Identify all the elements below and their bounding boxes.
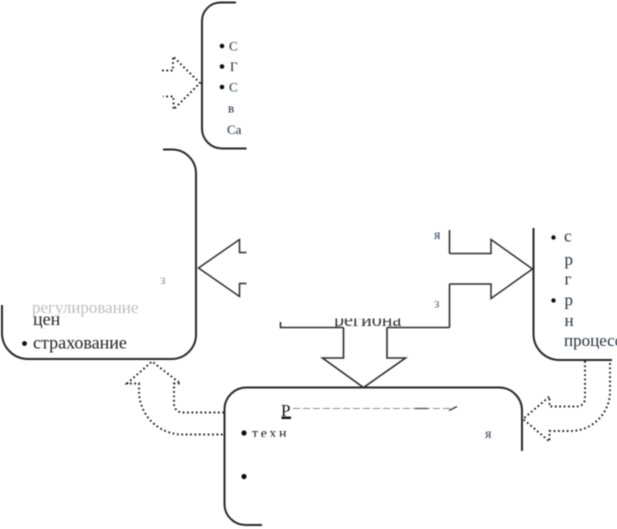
svg-text:С: С bbox=[229, 39, 238, 54]
svg-text:я: я bbox=[485, 427, 492, 442]
svg-text:С: С bbox=[229, 80, 238, 95]
svg-text:процесс: процесс bbox=[564, 331, 617, 350]
central box right edge lower remnant bbox=[449, 284, 451, 328]
box top (rounded rect, right side faded away) bbox=[202, 3, 247, 149]
central box bottom-right edge remnant bbox=[387, 327, 450, 329]
central box right edge upper remnant bbox=[449, 230, 451, 254]
bullet right box 1 bbox=[551, 235, 555, 239]
svg-text:Са: Са bbox=[227, 122, 242, 137]
text региона bbox=[334, 309, 401, 331]
dotted elbow block arrow from bottom box up into left box bbox=[127, 362, 224, 435]
box right (rounded rect, right side off-image) bbox=[534, 228, 613, 360]
faded underline of title bbox=[293, 408, 450, 410]
solid block arrow into left box bbox=[199, 240, 247, 297]
svg-text:з: з bbox=[160, 273, 166, 288]
text fragments top box bbox=[227, 39, 242, 138]
bullet top box 2 bbox=[220, 64, 225, 69]
dotted elbow block arrow from right box down into bottom box bbox=[523, 361, 610, 442]
bullet right box 2 bbox=[551, 298, 555, 302]
text fragments right box bbox=[564, 227, 617, 351]
svg-text:р: р bbox=[565, 250, 574, 269]
dotted block arrow into top box bbox=[162, 57, 200, 110]
svg-text:г: г bbox=[565, 270, 572, 289]
text техн bbox=[252, 427, 289, 442]
tick at end of title underline bbox=[449, 407, 457, 411]
svg-text:Г: Г bbox=[230, 59, 238, 74]
svg-text:с: с bbox=[564, 227, 572, 246]
bullet bottom box 2 bbox=[241, 474, 246, 479]
svg-text:страхование: страхование bbox=[33, 333, 127, 353]
svg-text:техн: техн bbox=[252, 427, 289, 442]
svg-text:з: з bbox=[434, 297, 440, 312]
svg-text:в: в bbox=[228, 101, 234, 116]
box bottom (rounded rect, bottom/right partially faded) bbox=[225, 388, 523, 526]
central box bottom-left edge remnant bbox=[281, 322, 344, 328]
bullet top box 1 bbox=[220, 44, 225, 49]
svg-text:н: н bbox=[565, 311, 574, 330]
bullet left box bbox=[22, 341, 27, 346]
solid block arrow into right box bbox=[450, 240, 533, 299]
bullet bottom box 1 bbox=[241, 430, 246, 435]
svg-text:цен: цен bbox=[33, 309, 61, 329]
bullet top box 3 bbox=[220, 85, 225, 90]
svg-text:я: я bbox=[434, 228, 441, 243]
box left (rounded rect, left/top partially faded) bbox=[2, 150, 196, 360]
solid block arrow down into bottom box bbox=[323, 328, 406, 388]
svg-text:р: р bbox=[565, 291, 574, 310]
